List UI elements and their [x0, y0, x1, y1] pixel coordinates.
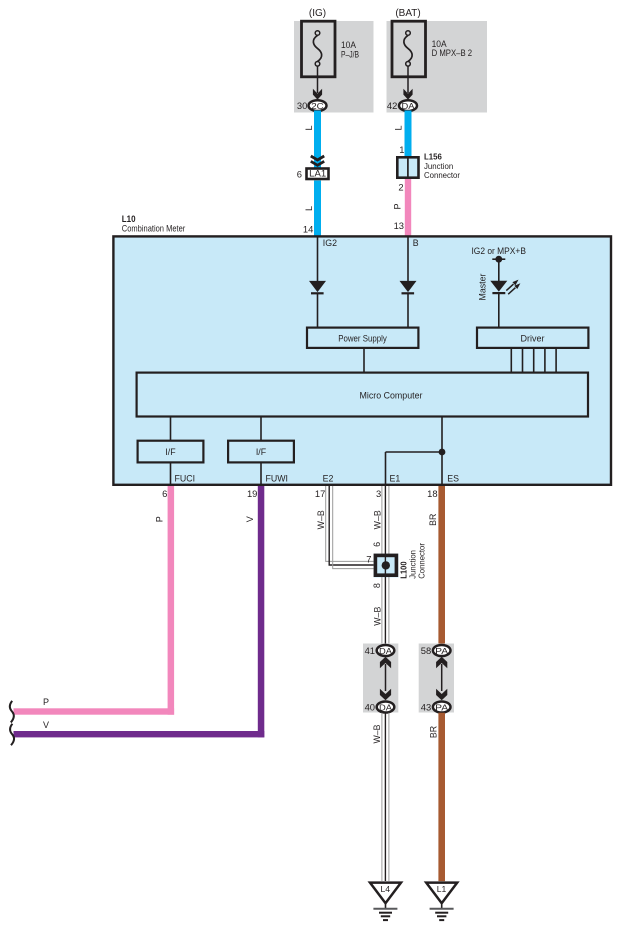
- wire BR brown ES to PA: [438, 486, 445, 645]
- junction connector L100 fill: [374, 554, 399, 578]
- svg-text:Combination Meter: Combination Meter: [122, 223, 186, 233]
- wire to pin ES: [441, 452, 443, 485]
- connector oval 58 PA: [433, 645, 451, 656]
- wire to pin E1: [385, 452, 387, 485]
- svg-text:2: 2: [398, 182, 403, 193]
- LED arrows: [506, 284, 513, 291]
- svg-text:V: V: [43, 720, 49, 730]
- svg-text:P: P: [393, 203, 403, 209]
- svg-text:P: P: [155, 516, 165, 522]
- svg-text:FUWI: FUWI: [266, 473, 288, 483]
- svg-text:40: 40: [365, 702, 375, 713]
- wire P pink horizontal: [14, 708, 175, 714]
- svg-text:13: 13: [394, 220, 404, 231]
- connector 6 LA1: [307, 169, 329, 180]
- micro computer box: [137, 373, 588, 417]
- arrow up (41): [380, 657, 391, 668]
- I/F box 1: [138, 441, 204, 463]
- LED master indicator: [490, 281, 507, 292]
- svg-text:D MPX–B 2: D MPX–B 2: [432, 48, 473, 58]
- svg-text:B: B: [413, 238, 419, 248]
- driver box: [477, 328, 588, 348]
- svg-text:PA: PA: [435, 702, 448, 712]
- arrow down (43): [436, 689, 447, 700]
- svg-text:W–B: W–B: [373, 607, 383, 626]
- svg-text:BR: BR: [428, 514, 438, 526]
- svg-text:I/F: I/F: [256, 447, 267, 457]
- svg-text:DA: DA: [379, 702, 392, 712]
- fuse block shading (IG side): [294, 21, 374, 113]
- fuse F2 element: [406, 31, 411, 36]
- driver pin wires: [510, 349, 512, 372]
- svg-text:6: 6: [162, 488, 167, 499]
- wire W-B E2 outline left/top: [326, 486, 374, 561]
- svg-text:IG2: IG2: [323, 238, 337, 248]
- wire BR 43 to ground: [438, 713, 445, 882]
- wire MC to I/F 2: [260, 417, 262, 441]
- svg-text:DA: DA: [402, 101, 415, 111]
- svg-text:1: 1: [399, 144, 404, 155]
- pin line B: [407, 237, 409, 281]
- pin line IG2: [317, 237, 319, 281]
- svg-text:V: V: [245, 516, 255, 522]
- I/F box 2: [228, 441, 294, 463]
- wire W-B 40 to ground: [381, 713, 383, 881]
- meter box L10: [113, 236, 611, 484]
- diode D1: [309, 281, 326, 292]
- wire V violet horizontal: [14, 731, 265, 737]
- wire P pink vertical: [168, 486, 175, 715]
- connector oval 43 PA: [433, 702, 451, 713]
- svg-text:DA: DA: [379, 646, 392, 656]
- wire MC to ES node: [441, 417, 443, 453]
- fuse F1 box: [302, 21, 336, 77]
- svg-text:6: 6: [297, 168, 302, 179]
- connector shading box (DA): [363, 644, 398, 713]
- continuation squiggle V: [10, 724, 14, 746]
- wire L cyan DA to L156: [405, 111, 412, 158]
- ground hatch L4: [373, 908, 397, 910]
- svg-text:L1: L1: [437, 884, 447, 894]
- svg-text:Master: Master: [477, 273, 487, 300]
- power supply box: [307, 328, 418, 348]
- connector oval 2C: [309, 100, 327, 111]
- svg-text:FUCI: FUCI: [175, 473, 196, 483]
- svg-text:E2: E2: [323, 473, 334, 483]
- svg-text:42: 42: [387, 100, 397, 111]
- wire W-B E2 outline right/bottom: [333, 486, 374, 569]
- arrow down (40): [380, 689, 391, 700]
- svg-text:I/F: I/F: [165, 447, 176, 457]
- svg-text:Driver: Driver: [521, 333, 545, 343]
- wire PS to MC: [363, 349, 365, 372]
- svg-text:6: 6: [372, 542, 382, 547]
- svg-text:30: 30: [297, 100, 307, 111]
- svg-text:2C: 2C: [311, 101, 324, 111]
- svg-text:W–B: W–B: [316, 510, 326, 529]
- wire V violet vertical: [258, 486, 265, 737]
- wire fuse to connector: [317, 66, 319, 93]
- svg-text:41: 41: [365, 645, 375, 656]
- fuse F1 element: [315, 31, 320, 36]
- wire MC to I/F 1: [170, 417, 172, 441]
- wire W-B E1 vertical: [381, 486, 383, 554]
- svg-text:Connector: Connector: [417, 543, 427, 579]
- wire P pink L156 to pin 13: [405, 179, 411, 236]
- wire I/F1 to pin FUCI: [170, 463, 172, 486]
- svg-text:L10: L10: [122, 214, 136, 224]
- connector shading box (PA): [419, 644, 454, 713]
- ground triangle L4: [370, 883, 401, 904]
- svg-text:BR: BR: [428, 726, 438, 738]
- arrow into 2C: [313, 89, 322, 100]
- svg-text:ES: ES: [447, 473, 459, 483]
- connector oval DA: [399, 100, 417, 111]
- connector oval 41 DA: [377, 645, 395, 656]
- svg-text:(IG): (IG): [309, 8, 326, 19]
- fuse F2 box: [392, 21, 426, 77]
- svg-text:14: 14: [303, 223, 313, 234]
- diode D2: [400, 281, 417, 292]
- splice chevrons: [311, 156, 324, 160]
- arrow into DA: [403, 89, 412, 100]
- ground triangle L1: [426, 883, 457, 904]
- svg-text:17: 17: [315, 488, 325, 499]
- svg-text:W–B: W–B: [372, 510, 382, 529]
- node L100 junction: [382, 561, 390, 569]
- svg-text:P–J/B: P–J/B: [341, 49, 359, 59]
- svg-text:IG2 or MPX+B: IG2 or MPX+B: [471, 246, 526, 256]
- svg-text:L4: L4: [381, 884, 391, 894]
- wire L cyan 2C to LA1: [314, 111, 321, 169]
- wire I/F2 to pin FUWI: [260, 463, 262, 486]
- ground hatch L1: [430, 908, 454, 910]
- svg-text:LA1: LA1: [309, 169, 326, 179]
- svg-text:W–B: W–B: [372, 724, 382, 743]
- node E1/ES junction: [439, 449, 446, 456]
- junction connector L100 border: [375, 555, 396, 575]
- wire fuse to connector: [407, 66, 409, 93]
- arrow up (58): [436, 657, 447, 668]
- svg-text:E1: E1: [390, 473, 401, 483]
- svg-text:L: L: [394, 125, 404, 130]
- continuation squiggle P: [10, 701, 14, 723]
- svg-text:18: 18: [427, 488, 437, 499]
- svg-text:L: L: [304, 206, 314, 211]
- svg-text:Connector: Connector: [424, 170, 460, 180]
- svg-text:43: 43: [421, 702, 431, 713]
- junction connector L156: [397, 157, 418, 177]
- svg-text:L: L: [304, 125, 314, 130]
- svg-text:8: 8: [372, 583, 382, 588]
- svg-text:7: 7: [366, 554, 371, 565]
- wire W-B E2 black core: [329, 486, 386, 565]
- svg-text:19: 19: [247, 488, 257, 499]
- svg-text:P: P: [43, 697, 49, 707]
- svg-text:3: 3: [376, 488, 381, 499]
- svg-text:(BAT): (BAT): [395, 8, 420, 19]
- svg-text:Power Supply: Power Supply: [338, 333, 387, 343]
- svg-text:PA: PA: [435, 646, 448, 656]
- svg-text:Micro Computer: Micro Computer: [360, 390, 423, 400]
- connector oval 40 DA: [377, 702, 395, 713]
- fuse block shading (BAT side): [387, 21, 488, 113]
- svg-text:L156: L156: [424, 151, 442, 161]
- wire L cyan LA1 to pin 14: [314, 181, 321, 237]
- svg-text:58: 58: [421, 645, 431, 656]
